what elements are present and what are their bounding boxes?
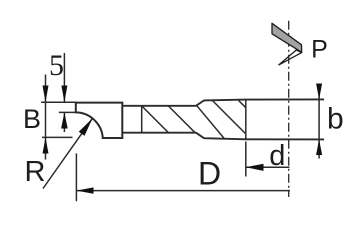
body bottom edge: [122, 133, 324, 140]
extension line bottom (for B): [42, 136, 73, 138]
dimension line B vertical: [45, 75, 47, 160]
dimension line d: [246, 166, 290, 168]
dimension line b vertical: [318, 84, 320, 159]
svg-text:d: d: [269, 140, 285, 172]
arrow B top: [43, 86, 49, 103]
svg-text:B: B: [23, 104, 41, 134]
extension line of step depth 5: [59, 111, 76, 113]
arrow B bottom: [43, 137, 49, 153]
arrow 5 top: [61, 86, 67, 103]
arrow 5 bottom: [61, 112, 68, 128]
arrow b bottom: [316, 139, 322, 155]
svg-text:P: P: [311, 36, 328, 64]
svg-text:5: 5: [49, 49, 64, 82]
hatch line 1: [142, 106, 169, 133]
dimension line 5 vertical upper: [63, 53, 65, 102]
arrow R leader: [79, 118, 93, 136]
hatch line 4: [212, 101, 245, 134]
dimension line 5 vertical lower: [63, 112, 65, 132]
svg-text:b: b: [327, 103, 344, 136]
marking flag P grey banner: [272, 23, 302, 52]
cutter head outline with concave step and radius: [76, 103, 123, 138]
hatch line 5: [239, 101, 246, 108]
arrow b top: [316, 84, 322, 100]
svg-text:R: R: [25, 156, 46, 188]
hatch boundary left: [141, 106, 143, 133]
centre axis dash-dot line: [288, 21, 290, 197]
hatch line 3: [197, 105, 225, 138]
leader line R: [43, 118, 93, 188]
svg-text:D: D: [198, 155, 221, 191]
arrow d left: [246, 164, 264, 171]
extension line top (for B and 5): [41, 101, 76, 103]
hatch line 2: [168, 106, 195, 133]
arrow D left: [76, 187, 93, 193]
marking flag P white pennant: [279, 50, 302, 65]
body top edge: [122, 99, 324, 105]
dimension line D: [76, 190, 290, 192]
extension line D vertical: [75, 153, 77, 201]
extension line d vertical: [245, 142, 247, 177]
hatch boundary right: [245, 100, 247, 140]
